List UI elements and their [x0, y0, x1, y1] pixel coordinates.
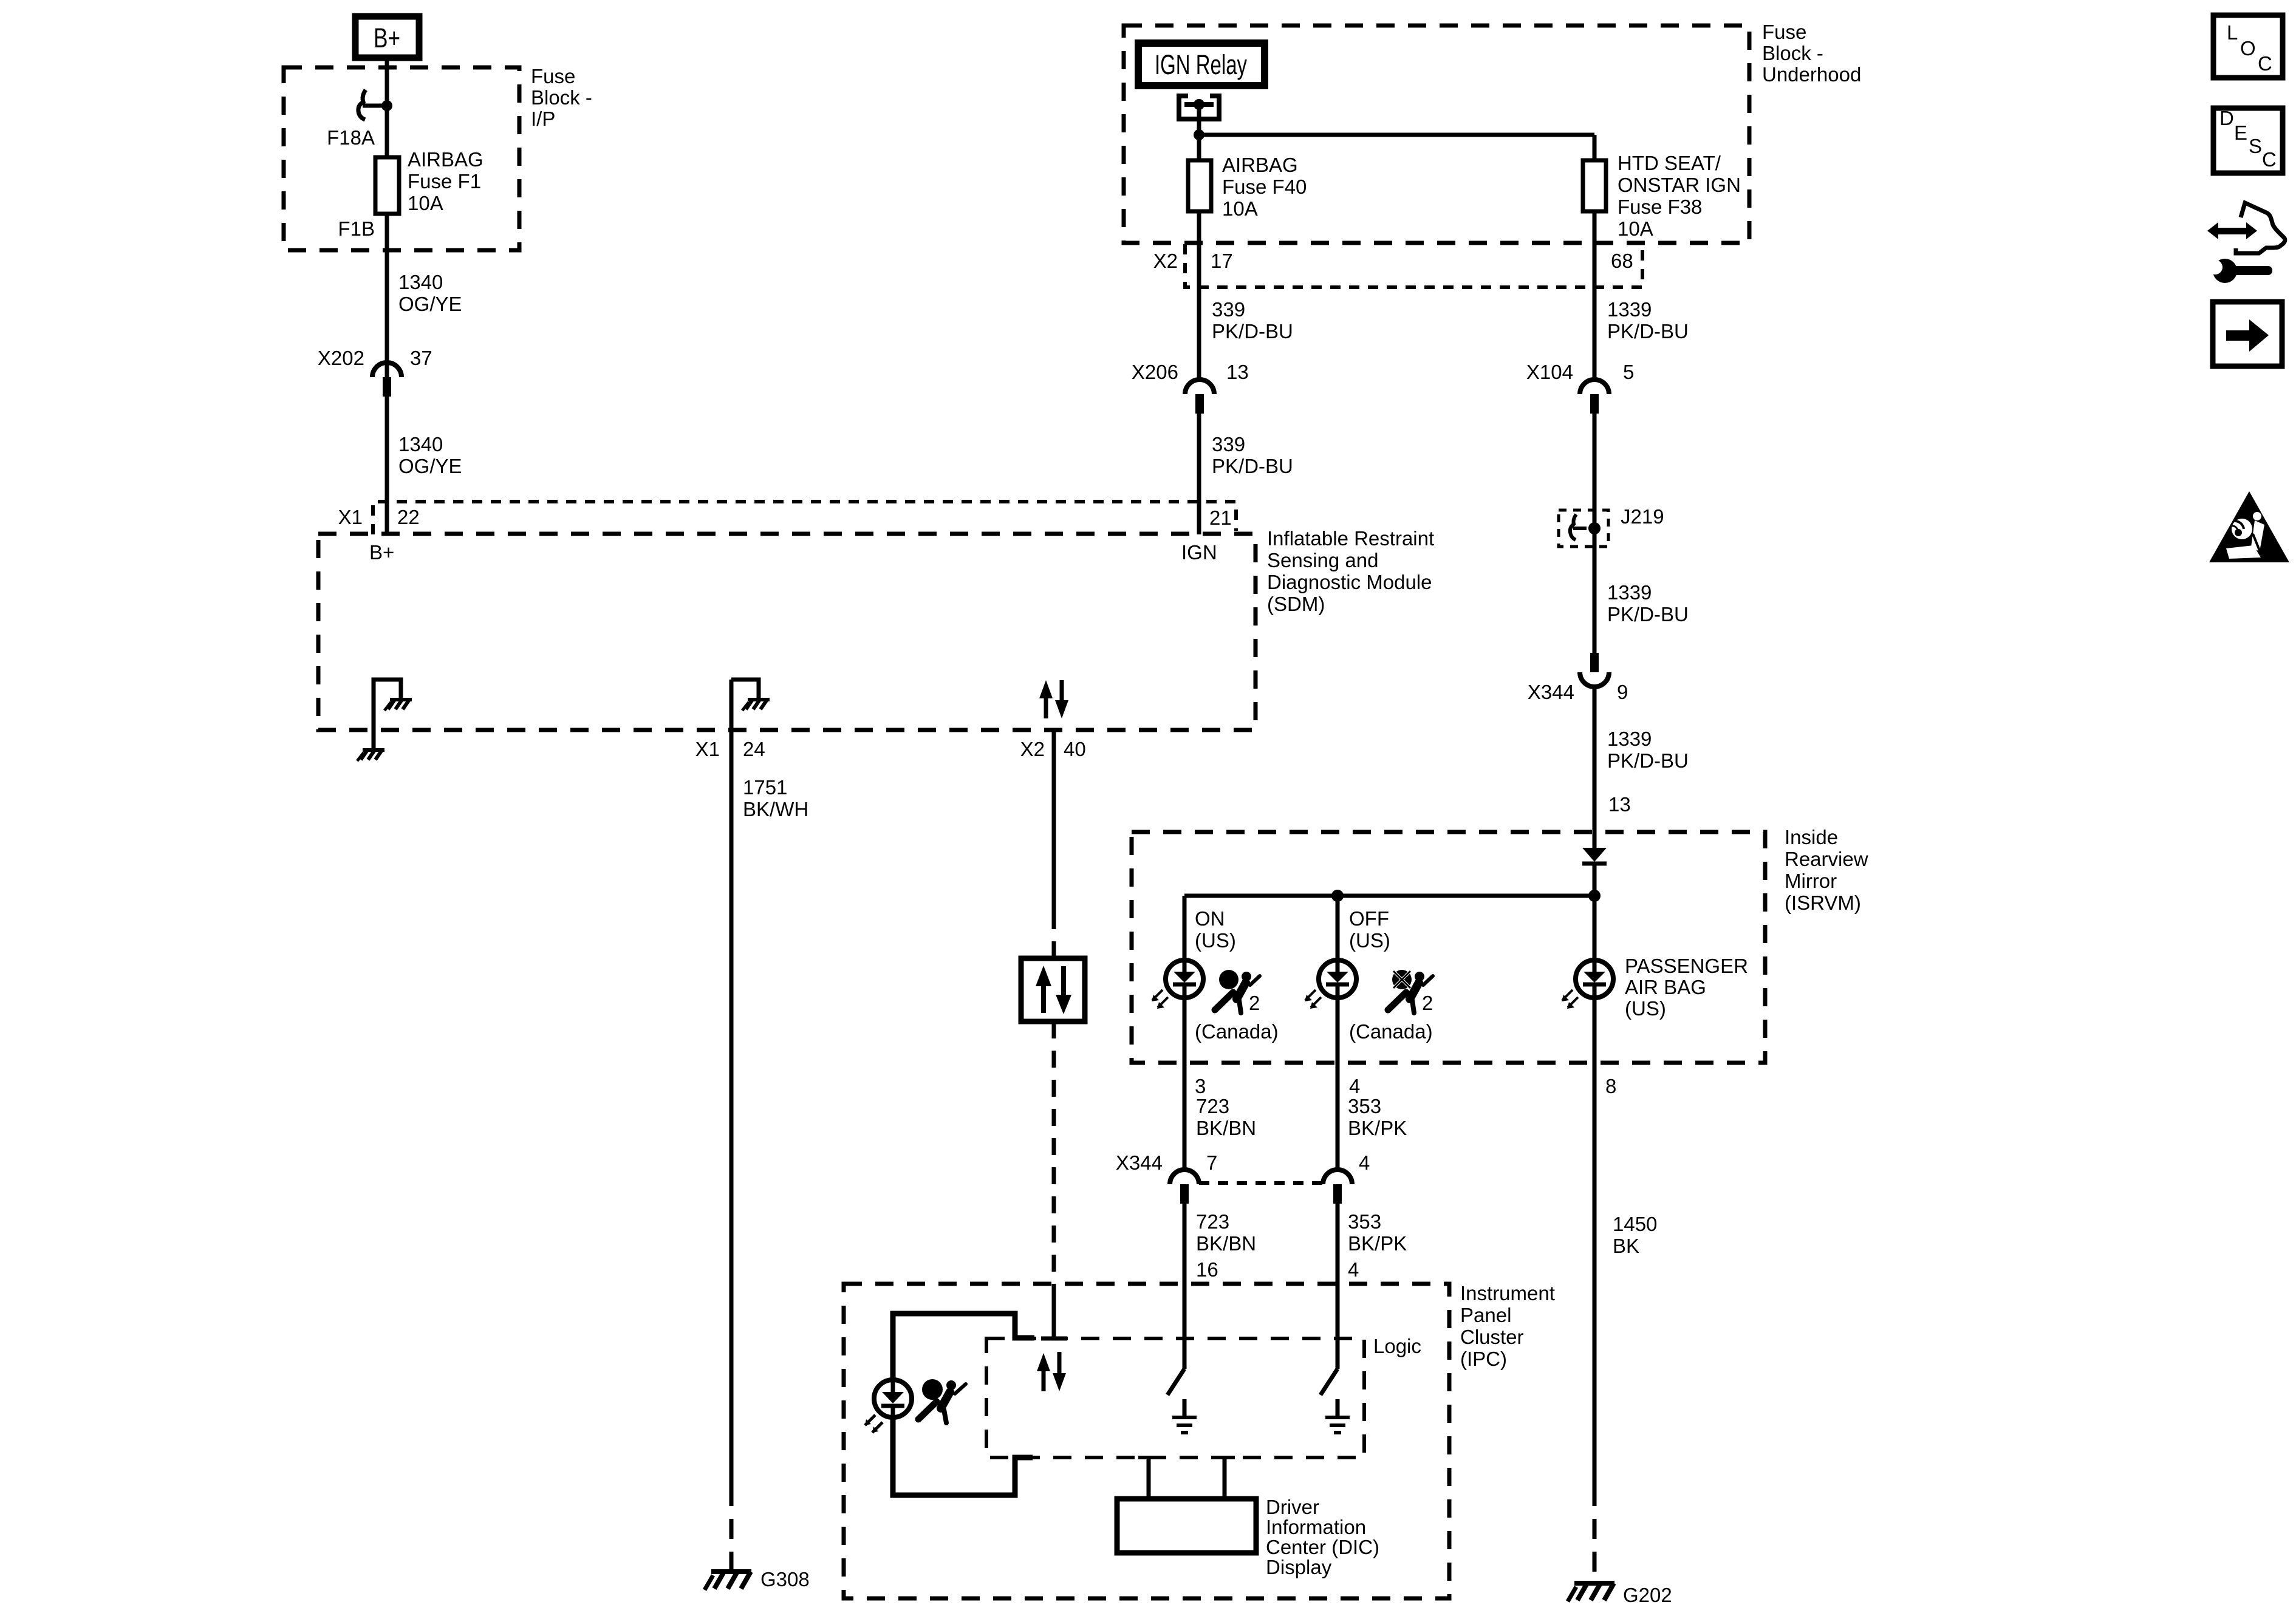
wire X344 pin 7 to IPC pin 16	[1183, 1204, 1187, 1369]
svg-text:Mirror: Mirror	[1785, 870, 1837, 892]
wire SDM pin 40 serial data	[1052, 730, 1056, 958]
svg-text:IGN: IGN	[1181, 541, 1217, 564]
wire X104 to X344	[1593, 414, 1597, 653]
SDM internal ground at pin 24	[731, 680, 770, 711]
svg-text:Fuse: Fuse	[1762, 21, 1806, 43]
SDM pin 40 label	[1020, 738, 1086, 760]
SDM X1 connector face dashed line	[373, 502, 1236, 534]
svg-text:1339: 1339	[1607, 728, 1652, 750]
svg-text:ONSTAR IGN: ONSTAR IGN	[1618, 174, 1741, 196]
svg-text:(ISRVM): (ISRVM)	[1785, 892, 1861, 914]
connector X202 label	[318, 347, 432, 369]
wire label 353 BK/PK upper	[1348, 1095, 1407, 1139]
switch airbag on lamp	[1167, 1369, 1184, 1395]
LED indicator OFF	[1305, 958, 1356, 1009]
svg-text:L: L	[2227, 21, 2238, 44]
svg-text:C: C	[2262, 148, 2277, 171]
svg-text:(SDM): (SDM)	[1267, 593, 1325, 615]
svg-text:2: 2	[1249, 992, 1260, 1014]
DIC display connections	[1138, 1457, 1235, 1499]
svg-text:F1B: F1B	[338, 217, 375, 240]
svg-text:4: 4	[1359, 1151, 1370, 1174]
svg-text:(US): (US)	[1625, 997, 1666, 1020]
Fuse Block - Underhood label	[1762, 21, 1861, 86]
connector X206 label	[1132, 361, 1249, 383]
svg-text:Inflatable Restraint: Inflatable Restraint	[1267, 527, 1434, 550]
svg-text:BK/BN: BK/BN	[1196, 1232, 1256, 1255]
svg-text:7: 7	[1206, 1151, 1217, 1174]
wire label 339 PK/D-BU lower	[1212, 433, 1293, 477]
svg-text:ON: ON	[1195, 907, 1225, 930]
svg-text:40: 40	[1064, 738, 1086, 760]
svg-text:24: 24	[743, 738, 765, 760]
svg-text:68: 68	[1611, 250, 1633, 272]
wire label 353 BK/PK lower	[1348, 1210, 1407, 1255]
svg-text:G202: G202	[1623, 1584, 1672, 1606]
LOC reference box	[2213, 15, 2283, 78]
svg-text:Fuse F38: Fuse F38	[1618, 196, 1702, 218]
svg-text:3: 3	[1195, 1075, 1206, 1097]
svg-text:AIRBAG: AIRBAG	[408, 148, 483, 171]
svg-text:Underhood: Underhood	[1762, 63, 1861, 86]
svg-text:Driver: Driver	[1266, 1496, 1319, 1518]
svg-text:(US): (US)	[1195, 929, 1236, 952]
svg-text:AIR BAG: AIR BAG	[1625, 976, 1706, 998]
SDM label	[1267, 527, 1434, 615]
ground symbol switch 2	[1325, 1399, 1350, 1433]
fuse F40 label	[1222, 154, 1307, 220]
svg-text:(Canada): (Canada)	[1349, 1020, 1433, 1043]
connector X344 face dashed link	[1199, 1181, 1323, 1185]
svg-text:BK: BK	[1613, 1235, 1639, 1257]
connector X206	[1185, 380, 1214, 414]
pin 17 label	[1153, 250, 1233, 272]
SIR caution triangle	[2209, 491, 2289, 562]
connector X344 pin 4	[1323, 1170, 1352, 1204]
svg-text:(Canada): (Canada)	[1195, 1020, 1279, 1043]
svg-text:339: 339	[1212, 433, 1245, 455]
wire label 1339 PK/D-BU lower	[1607, 728, 1689, 772]
svg-text:G308: G308	[760, 1568, 810, 1590]
wire passenger lamp to G202	[1593, 998, 1597, 1582]
svg-text:X344: X344	[1116, 1151, 1163, 1174]
svg-text:(US): (US)	[1349, 929, 1390, 952]
wire diode to bus	[1593, 864, 1597, 960]
wire ON lamp to X344 pin 7	[1183, 998, 1187, 1170]
IPC label	[1460, 1282, 1555, 1370]
svg-text:Inside: Inside	[1785, 826, 1838, 848]
svg-text:Logic: Logic	[1373, 1335, 1421, 1357]
svg-text:OG/YE: OG/YE	[398, 293, 462, 315]
ON (US) label	[1195, 907, 1236, 952]
svg-text:IGN Relay: IGN Relay	[1155, 49, 1247, 80]
svg-text:9: 9	[1617, 681, 1628, 703]
airbag icon Canada ON	[1215, 970, 1260, 1014]
svg-text:X202: X202	[318, 347, 364, 369]
LED indicator passenger air bag	[1562, 958, 1613, 1009]
svg-text:1339: 1339	[1607, 298, 1652, 321]
fuse F38 label	[1618, 152, 1741, 240]
relay contact bracket	[1179, 96, 1219, 119]
SDM pin 24 label	[695, 738, 765, 760]
wire label 1339 PK/D-BU upper	[1607, 298, 1689, 343]
ISRVM lamp bus	[1184, 894, 1594, 898]
svg-text:Information: Information	[1266, 1516, 1366, 1538]
svg-text:X1: X1	[695, 738, 720, 760]
junction dot relay branch	[1194, 129, 1204, 140]
svg-text:1340: 1340	[398, 271, 443, 293]
svg-text:C: C	[2258, 52, 2272, 75]
svg-text:Diagnostic Module: Diagnostic Module	[1267, 571, 1432, 593]
svg-text:1339: 1339	[1607, 581, 1652, 604]
svg-text:(IPC): (IPC)	[1460, 1348, 1507, 1370]
fuse F38	[1583, 160, 1606, 211]
svg-text:1340: 1340	[398, 433, 443, 455]
svg-text:353: 353	[1348, 1210, 1381, 1233]
wire relay to fuse F40	[1197, 104, 1201, 160]
svg-text:PASSENGER: PASSENGER	[1625, 955, 1748, 977]
logic serial data arrows	[1037, 1352, 1066, 1391]
Fuse Block - Underhood box	[1124, 26, 1749, 243]
svg-text:E: E	[2234, 121, 2247, 144]
fuse block X2 connector face	[1185, 244, 1642, 287]
svg-text:Rearview: Rearview	[1785, 848, 1868, 870]
pin 22 label	[338, 506, 420, 528]
connector X344 pin 9 label	[1528, 681, 1628, 703]
PASSENGER AIR BAG label	[1625, 955, 1748, 1020]
ground G308	[705, 1572, 751, 1590]
svg-text:PK/D-BU: PK/D-BU	[1607, 320, 1689, 343]
SDM serial data arrows	[1039, 680, 1068, 718]
svg-text:I/P: I/P	[531, 107, 555, 130]
svg-text:Fuse F40: Fuse F40	[1222, 176, 1307, 198]
svg-text:1450: 1450	[1613, 1213, 1657, 1235]
connector X202	[372, 363, 401, 397]
connector X344 pin 9	[1580, 653, 1609, 687]
svg-text:17: 17	[1211, 250, 1233, 272]
svg-text:16: 16	[1196, 1258, 1218, 1281]
wire label 1450 BK	[1613, 1213, 1657, 1257]
svg-text:BK/WH: BK/WH	[743, 798, 808, 820]
svg-text:Fuse F1: Fuse F1	[408, 170, 481, 193]
svg-text:J219: J219	[1621, 505, 1664, 528]
airbag lamp driver box	[893, 1314, 1034, 1495]
svg-text:10A: 10A	[1222, 197, 1258, 220]
connector X104 label	[1526, 361, 1634, 383]
svg-text:AIRBAG: AIRBAG	[1222, 154, 1298, 176]
fuse F40	[1188, 160, 1211, 211]
svg-text:339: 339	[1212, 298, 1245, 321]
wire X206 to SDM pin 21	[1197, 414, 1201, 534]
fuse F1 label	[408, 148, 483, 214]
airbag icon Canada OFF	[1388, 970, 1433, 1014]
svg-text:8: 8	[1605, 1075, 1616, 1097]
svg-text:Center (DIC): Center (DIC)	[1266, 1536, 1379, 1558]
svg-text:BK/PK: BK/PK	[1348, 1232, 1407, 1255]
connector X104	[1580, 380, 1609, 414]
wire branch to fuse F38	[1199, 135, 1594, 160]
DESC reference box	[2213, 107, 2283, 173]
svg-text:B+: B+	[374, 22, 400, 53]
wire label 1751 BK/WH	[743, 776, 808, 820]
svg-text:Sensing and: Sensing and	[1267, 549, 1378, 571]
svg-text:BK/PK: BK/PK	[1348, 1117, 1407, 1139]
Fuse Block - I/P label	[531, 65, 592, 130]
IPC logic box	[986, 1338, 1364, 1457]
svg-text:PK/D-BU: PK/D-BU	[1607, 749, 1689, 772]
connector X344 pin 7	[1170, 1170, 1199, 1204]
svg-text:X2: X2	[1020, 738, 1045, 760]
svg-text:353: 353	[1348, 1095, 1381, 1117]
LED indicator ON	[1152, 958, 1203, 1009]
wire B+ to SDM pin 22	[385, 61, 389, 534]
svg-text:4: 4	[1349, 1075, 1360, 1097]
svg-text:PK/D-BU: PK/D-BU	[1212, 455, 1293, 477]
OFF branch wire	[1336, 896, 1340, 960]
SDM case ground below box	[357, 730, 384, 761]
svg-text:10A: 10A	[1618, 217, 1653, 240]
svg-text:X1: X1	[338, 506, 363, 528]
junction dot F18A	[381, 100, 392, 111]
serial data link box	[1021, 958, 1085, 1021]
IPC box	[844, 1284, 1449, 1598]
ground G202	[1568, 1583, 1614, 1601]
fuse F1	[375, 157, 399, 214]
junction dot OFF branch	[1331, 890, 1344, 902]
svg-text:BK/BN: BK/BN	[1196, 1117, 1256, 1139]
DIC label	[1266, 1496, 1379, 1578]
svg-text:13: 13	[1608, 793, 1631, 816]
svg-text:37: 37	[410, 347, 432, 369]
svg-text:723: 723	[1196, 1210, 1229, 1233]
svg-text:2: 2	[1422, 992, 1433, 1014]
svg-text:13: 13	[1226, 361, 1249, 383]
svg-text:X2: X2	[1153, 250, 1178, 272]
svg-text:21: 21	[1209, 506, 1232, 529]
wire SDM pin 24 to G308	[729, 680, 734, 1570]
svg-text:Fuse: Fuse	[531, 65, 575, 87]
SDM box	[318, 534, 1256, 730]
svg-text:4: 4	[1348, 1258, 1359, 1281]
svg-text:Block -: Block -	[1762, 42, 1823, 64]
wire label 1340 OG/YE lower	[398, 433, 462, 477]
svg-text:OG/YE: OG/YE	[398, 455, 462, 477]
wire label 339 PK/D-BU upper	[1212, 298, 1293, 343]
svg-text:10A: 10A	[408, 192, 443, 214]
OFF (US) label	[1349, 907, 1390, 952]
ON branch wire	[1183, 896, 1187, 960]
svg-text:1751: 1751	[743, 776, 787, 799]
svg-text:X344: X344	[1528, 681, 1574, 703]
svg-text:X104: X104	[1526, 361, 1573, 383]
switch airbag off lamp	[1321, 1369, 1338, 1395]
svg-text:X206: X206	[1132, 361, 1178, 383]
B+ power feed box	[355, 16, 419, 58]
ground symbol switch 1	[1172, 1399, 1197, 1433]
connector X344 pins 7/4 label	[1116, 1151, 1370, 1174]
svg-text:22: 22	[397, 506, 420, 528]
svg-text:Display: Display	[1266, 1556, 1332, 1578]
Fuse Block - I/P box	[284, 67, 519, 250]
forward reference arrow box	[2213, 302, 2282, 366]
diode in ISRVM	[1582, 848, 1607, 864]
ISRVM label	[1785, 826, 1868, 914]
wire label 1339 PK/D-BU mid	[1607, 581, 1689, 626]
bus tap clip at F18A	[358, 90, 383, 120]
wire X344 pin 4 to IPC pin 4	[1336, 1204, 1340, 1369]
svg-text:D: D	[2219, 107, 2234, 129]
svg-text:Panel: Panel	[1460, 1304, 1511, 1326]
junction dot passenger branch	[1588, 890, 1601, 902]
splice J219	[1559, 510, 1608, 547]
svg-text:PK/D-BU: PK/D-BU	[1212, 320, 1293, 343]
wire label 723 BK/BN lower	[1196, 1210, 1256, 1255]
LED indicator IPC airbag lamp	[865, 1378, 912, 1433]
svg-text:PK/D-BU: PK/D-BU	[1607, 603, 1689, 626]
svg-text:723: 723	[1196, 1095, 1229, 1117]
wire X344 to ISRVM	[1593, 686, 1597, 848]
IGN Relay box	[1138, 43, 1265, 86]
airbag icon IPC	[918, 1379, 966, 1423]
wrench icon	[2203, 257, 2272, 283]
wire label 1340 OG/YE upper	[398, 271, 462, 315]
wire OFF lamp to X344 pin 4	[1336, 998, 1340, 1170]
svg-text:Cluster: Cluster	[1460, 1326, 1524, 1348]
wire F38 to X104	[1593, 211, 1597, 380]
svg-text:O: O	[2240, 37, 2256, 60]
svg-text:5: 5	[1623, 361, 1634, 383]
vehicle connector icon	[2207, 203, 2285, 253]
wire label 723 BK/BN upper	[1196, 1095, 1256, 1139]
svg-text:OFF: OFF	[1349, 907, 1389, 930]
wire data link to IPC	[1041, 1021, 1067, 1338]
svg-text:B+: B+	[369, 541, 394, 564]
DIC display box	[1117, 1499, 1256, 1553]
wire F40 to X206	[1197, 211, 1201, 380]
SDM internal ground left	[374, 680, 412, 730]
ISRVM box	[1132, 832, 1765, 1063]
svg-text:HTD SEAT/: HTD SEAT/	[1618, 152, 1721, 174]
svg-text:Instrument: Instrument	[1460, 1282, 1555, 1304]
svg-text:F18A: F18A	[327, 126, 375, 149]
svg-text:Block -: Block -	[531, 86, 592, 109]
svg-text:S: S	[2249, 135, 2262, 157]
